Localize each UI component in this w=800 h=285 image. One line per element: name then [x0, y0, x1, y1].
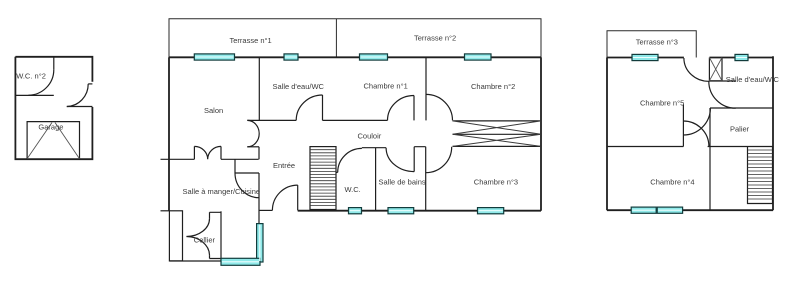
door arc salle a manger-entree	[235, 173, 259, 198]
svg-text:Chambre n°3: Chambre n°3	[474, 178, 518, 187]
wall salon bottom left segment with overshoot tick	[161, 158, 195, 160]
door arc entree	[272, 185, 297, 210]
wall palier left	[709, 108, 711, 210]
wire outer walls left block	[15, 57, 92, 159]
svg-text:Salon: Salon	[204, 106, 223, 115]
window terrasse1 small	[284, 54, 298, 60]
wall brace bottom tick	[247, 146, 259, 148]
door arc WC2	[28, 70, 53, 96]
wall chambre5 bottom	[607, 146, 683, 148]
double door salon leaves	[194, 146, 221, 159]
wall salle a manger bottom overshoot tick	[161, 210, 170, 212]
wall wc tick	[336, 171, 338, 173]
wall jog down	[235, 159, 259, 173]
wall garage top right	[67, 106, 93, 108]
wall stub couloir bottom	[414, 147, 426, 172]
door arc chambre2	[426, 94, 453, 120]
wall main top	[169, 56, 541, 58]
svg-text:Salle d'eau/W.C: Salle d'eau/W.C	[726, 75, 780, 84]
staircase right box	[748, 147, 773, 204]
door leaf chambre1	[413, 96, 415, 121]
staircase middle	[310, 147, 336, 210]
window terrasse2 left	[360, 54, 388, 60]
wall terrasse divider	[335, 19, 337, 58]
door arc chambre4	[683, 121, 709, 147]
wall right block left	[606, 58, 608, 211]
svg-text:Couloir: Couloir	[358, 131, 382, 140]
door arc salle de bains	[386, 148, 414, 172]
wall wc / salle de bains divider	[375, 148, 377, 211]
wall main left	[168, 57, 170, 211]
wall entree left lower	[258, 173, 260, 223]
wall X-box mid	[453, 133, 542, 135]
svg-text:Garage: Garage	[38, 123, 63, 132]
wire terrasse 1+2 outline	[169, 19, 541, 58]
svg-text:Chambre n°4: Chambre n°4	[650, 178, 694, 187]
wall tick right entry	[88, 83, 92, 85]
garage door rect	[27, 122, 79, 160]
wall X-box bottom chambre3 top	[453, 145, 542, 147]
svg-text:Terrasse n°2: Terrasse n°2	[414, 34, 456, 43]
windows (cyan) middle block top	[194, 54, 503, 265]
window salle de bains	[388, 208, 414, 214]
X-box diagonals stairs loft	[453, 121, 542, 146]
door arc chambre5-palier	[683, 108, 710, 135]
window vestibule vertical door	[257, 224, 263, 262]
wall cellier bottom	[169, 260, 221, 262]
door arc chambre3	[426, 147, 452, 173]
svg-text:W.C.: W.C.	[345, 185, 361, 194]
door arc chambre1	[388, 96, 415, 121]
door leaf entree	[297, 185, 299, 210]
door arc salle d'eau/WC	[296, 95, 322, 120]
wall entree bottom tick	[259, 209, 272, 211]
wire terrasse 3 outline	[607, 31, 696, 58]
svg-text:W.C. n°2: W.C. n°2	[16, 72, 46, 81]
svg-text:Cellier: Cellier	[194, 235, 216, 244]
salle a manger / cellier zone	[169, 211, 221, 261]
wall main right	[540, 57, 542, 210]
wall salon / salle d'eau divider	[258, 57, 260, 120]
door leaf salle d'eau right	[709, 80, 735, 82]
wall entree left vertical	[258, 147, 260, 160]
wall WC2 bottom	[15, 94, 53, 96]
wall palier top	[710, 107, 773, 109]
windows right block	[631, 54, 748, 213]
door leaves cellier	[209, 212, 211, 258]
svg-text:Chambre n°1: Chambre n°1	[364, 81, 408, 90]
wall WC2 divider leaf	[53, 57, 55, 70]
garage door diagonals	[27, 123, 79, 159]
wall chambre1 / chambre2 divider	[425, 57, 427, 120]
window chambre4 left	[631, 207, 656, 213]
wall right block right	[772, 56, 774, 210]
svg-text:Salle d'eau/WC: Salle d'eau/WC	[273, 82, 325, 91]
door arcs cellier	[186, 219, 209, 256]
wall X-box top chambre2 bottom	[453, 120, 542, 122]
wall right block top	[607, 57, 773, 59]
window terrasse1 large	[194, 54, 234, 60]
window vestibule bottom	[221, 258, 260, 265]
svg-text:Terrasse n°3: Terrasse n°3	[636, 37, 678, 46]
staircase right rungs	[748, 150, 773, 199]
window terrasse3	[632, 54, 658, 60]
window salle d'eau top	[735, 54, 748, 60]
wall salle de bains / chambre3 divider	[425, 147, 427, 211]
shower box	[709, 58, 722, 81]
wall cellier right	[220, 211, 222, 261]
svg-text:Entrée: Entrée	[273, 161, 295, 170]
window chambre4 right	[657, 207, 682, 213]
wall salon bottom right segment	[221, 158, 259, 160]
wall palier bottom	[708, 146, 773, 148]
window wc bottom	[349, 208, 362, 214]
double door salon arcs	[194, 146, 221, 159]
door arc wc	[338, 148, 362, 172]
svg-text:Chambre n°2: Chambre n°2	[471, 82, 515, 91]
door leaf salle d'eau/WC	[322, 95, 324, 120]
shower X	[709, 58, 722, 81]
wall cellier ticks	[210, 212, 222, 258]
door arc terrasse3	[684, 58, 710, 81]
brace door salon-couloir	[247, 120, 259, 146]
svg-text:Terrasse n°1: Terrasse n°1	[230, 36, 272, 45]
door arc salle d'eau right	[709, 81, 736, 108]
window terrasse2 right	[465, 54, 492, 60]
wall right block bottom	[607, 209, 773, 211]
wall couloir top segments	[247, 119, 387, 121]
wall main bottom right part	[298, 210, 541, 212]
door arc garage lobby	[67, 84, 88, 107]
svg-text:Salle de bains: Salle de bains	[379, 178, 426, 187]
wall couloir bottom left segment	[362, 147, 386, 149]
svg-text:Chambre n°5: Chambre n°5	[640, 98, 684, 107]
wall chambre5 right	[682, 104, 684, 146]
svg-text:Palier: Palier	[730, 125, 750, 134]
window chambre3	[478, 208, 504, 214]
wall pilaster	[169, 211, 182, 261]
svg-text:Salle à manger/Cuisine: Salle à manger/Cuisine	[183, 187, 261, 196]
